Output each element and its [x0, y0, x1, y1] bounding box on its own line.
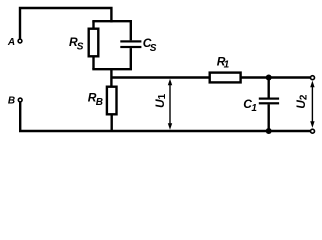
label C1	[243, 97, 257, 114]
wire: bottom rail	[19, 130, 310, 132]
svg-text:B: B	[8, 96, 15, 107]
wire from terminal B down to bottom rail	[19, 102, 21, 131]
capacitor C1	[259, 98, 279, 105]
label U1	[153, 93, 168, 108]
capacitor CS	[120, 40, 141, 48]
label RB	[88, 91, 103, 109]
terminal U2 bottom	[311, 129, 315, 133]
junction dot at C1 top node	[266, 75, 272, 81]
label B	[8, 96, 15, 107]
wire: node U1 horizontal wire to R1	[111, 76, 209, 78]
svg-text:A: A	[7, 37, 15, 48]
wire: R1 to output terminal	[241, 76, 311, 78]
label U2	[294, 94, 309, 109]
node: bottom bar of RS/CS parallel combination	[92, 68, 132, 70]
label RS	[69, 35, 84, 53]
terminal B	[18, 98, 22, 102]
svg-text:S: S	[150, 43, 157, 54]
resistor R1	[210, 73, 241, 83]
wire: stub from top bar to CS	[130, 21, 132, 40]
wire: RB to bottom rail	[110, 114, 112, 131]
node: top bar of RS/CS parallel combination	[92, 20, 132, 22]
voltage arrow U1	[168, 79, 172, 130]
junction dot at C1 bottom node	[266, 128, 272, 134]
wire: drop from bottom bar through node to RB	[110, 69, 112, 87]
voltage arrow U2	[310, 81, 314, 128]
terminal A	[18, 39, 22, 43]
wire: stub from top bar to RS	[92, 21, 94, 29]
svg-text:S: S	[77, 42, 84, 53]
label R1	[217, 55, 230, 71]
wire from terminal A up and across to parallel RC	[20, 8, 111, 39]
svg-text:B: B	[96, 97, 103, 108]
svg-text:1: 1	[224, 60, 230, 71]
wire: stub from CS to bottom bar	[130, 48, 132, 69]
resistor RB	[107, 87, 117, 115]
wire: stub from RS to bottom bar	[92, 56, 94, 69]
svg-text:1: 1	[251, 103, 257, 114]
wire: C1 top lead	[268, 78, 270, 98]
wire: C1 bottom lead	[268, 104, 270, 131]
resistor RS	[89, 29, 99, 57]
label CS	[143, 36, 157, 54]
terminal U2 top	[311, 76, 315, 80]
label A	[7, 37, 15, 48]
